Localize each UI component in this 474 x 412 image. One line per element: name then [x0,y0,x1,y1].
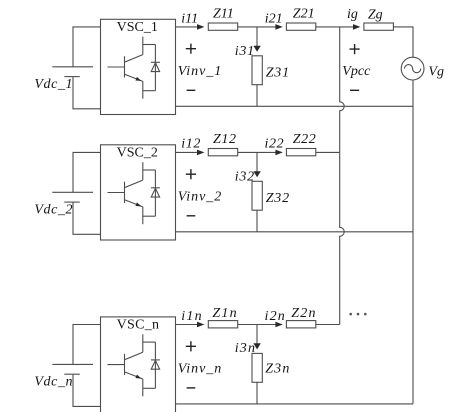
svg-text:VSC_n: VSC_n [117,318,160,333]
svg-text:i1n: i1n [181,309,203,324]
svg-text:VSC_1: VSC_1 [117,20,158,35]
svg-text:Z31: Z31 [266,66,290,81]
svg-text:Vinv_2: Vinv_2 [178,189,223,204]
svg-text:i12: i12 [181,137,201,152]
svg-text:Vdc_n: Vdc_n [34,375,73,390]
svg-text:Vinv_n: Vinv_n [178,361,223,376]
svg-text:Vdc_2: Vdc_2 [34,203,73,218]
svg-text:Z1n: Z1n [212,306,237,321]
svg-text:Z11: Z11 [213,6,234,21]
svg-text:i3n: i3n [235,341,257,356]
svg-text:Z12: Z12 [213,132,237,147]
svg-text:Z2n: Z2n [291,306,316,321]
svg-text:i11: i11 [181,12,198,27]
svg-text:i21: i21 [265,12,283,27]
svg-text:Z22: Z22 [293,132,317,147]
svg-text:Vpcc: Vpcc [342,64,371,79]
svg-text:Vg: Vg [428,65,444,80]
svg-text:VSC_2: VSC_2 [117,146,158,161]
svg-text:Z32: Z32 [266,191,290,206]
svg-text:ig: ig [347,7,358,22]
svg-text:i2n: i2n [265,309,287,324]
svg-text:Zg: Zg [368,8,383,23]
svg-text:Vinv_1: Vinv_1 [178,64,223,79]
svg-text:i31: i31 [235,44,255,59]
svg-text:i22: i22 [265,137,285,152]
svg-text:Vdc_1: Vdc_1 [34,77,73,92]
svg-text:Z3n: Z3n [265,362,290,377]
svg-text:i32: i32 [235,170,255,185]
svg-text:Z21: Z21 [293,6,315,21]
